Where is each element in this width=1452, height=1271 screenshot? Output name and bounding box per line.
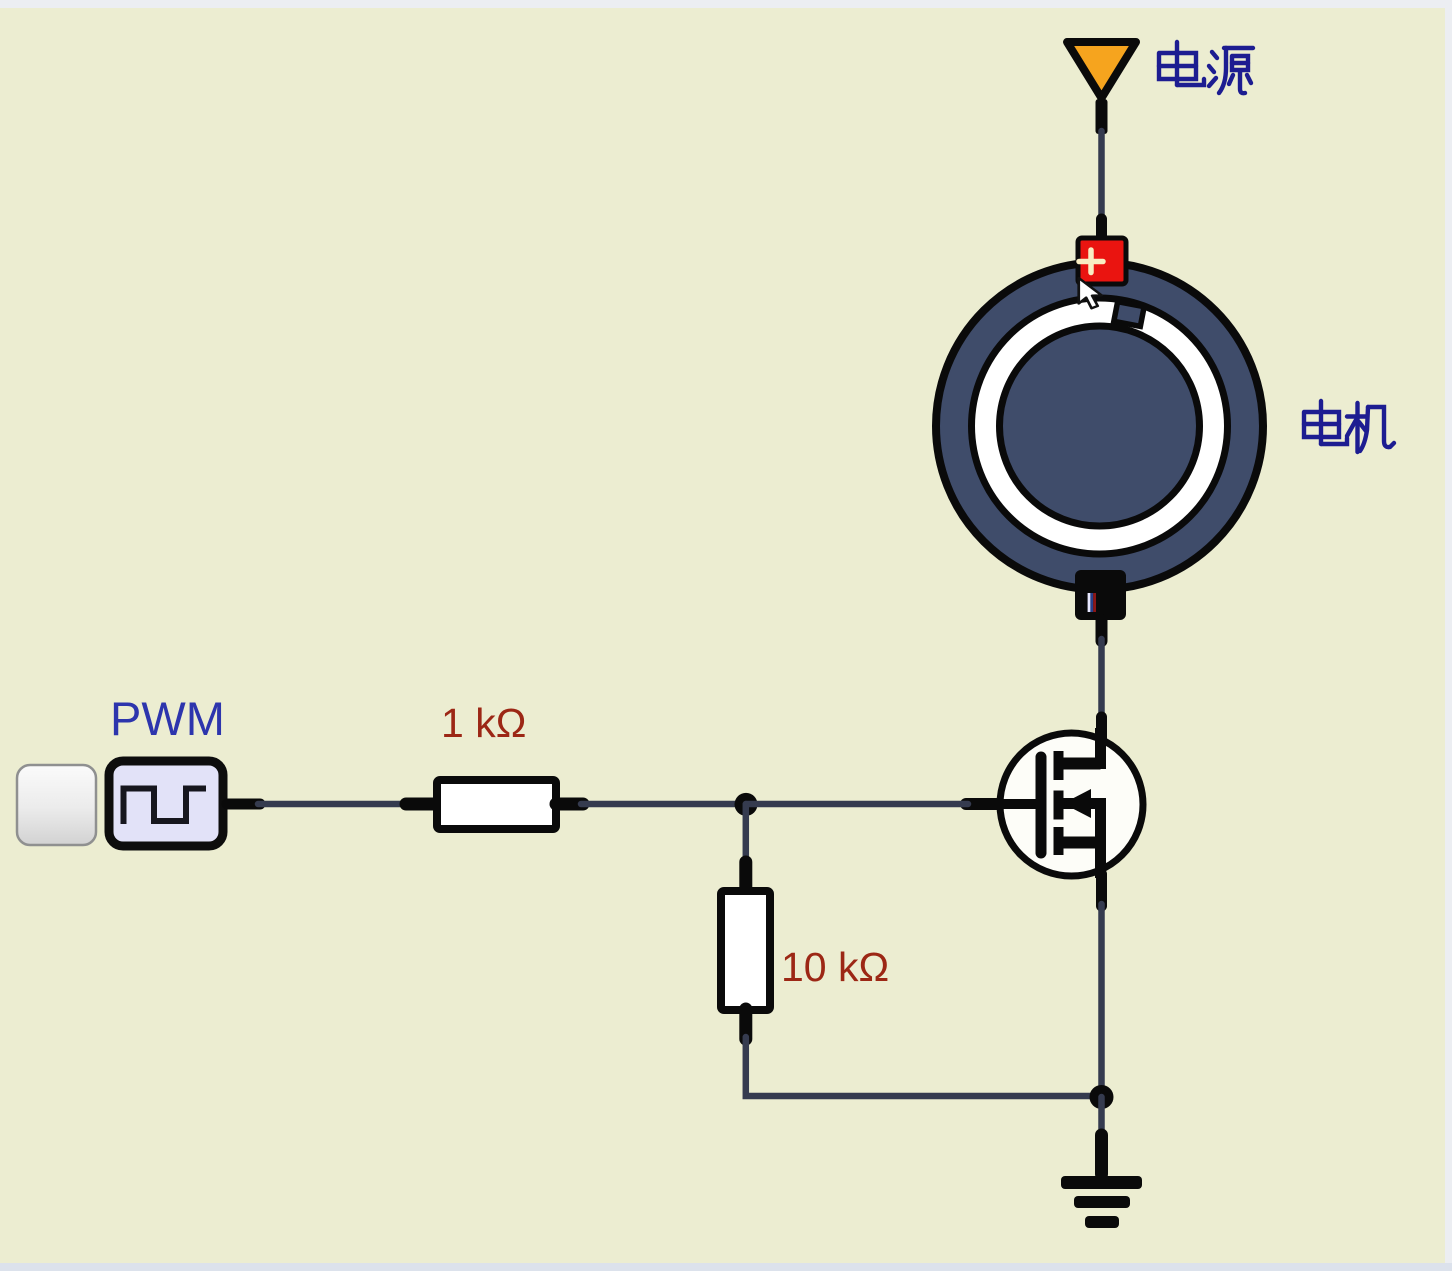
电 [1304, 401, 1347, 444]
label 电源 (hand-drawn CJK) [1159, 42, 1253, 93]
gate pin stub [966, 798, 999, 810]
wire R1 to gate node [581, 801, 746, 808]
wire motor to MOSFET drain [1096, 620, 1108, 738]
源 [1209, 48, 1253, 93]
node source junction [1090, 1085, 1114, 1109]
gate bar [1036, 757, 1047, 853]
resistor R2 10 kOhm [721, 862, 770, 1039]
wire gate node to R2 [743, 804, 750, 866]
wire power to motor + [1098, 131, 1105, 240]
svg-text:10 kΩ: 10 kΩ [781, 944, 889, 990]
label 电机 (hand-drawn CJK) [1304, 401, 1394, 452]
node gate junction [735, 793, 758, 816]
svg-text:1 kΩ: 1 kΩ [441, 700, 526, 746]
PWM toggle button [17, 765, 96, 845]
PWM source U1 [109, 761, 223, 846]
source lead [1059, 837, 1101, 849]
resistor R1 1 kOhm [406, 780, 583, 829]
ground [1061, 1135, 1142, 1228]
电 [1159, 42, 1204, 85]
channel segments [1054, 751, 1064, 780]
drain lead [1059, 758, 1101, 770]
机 [1347, 403, 1394, 452]
motor terminal - (black) [1075, 570, 1126, 620]
motor terminal + (red) [1078, 238, 1126, 284]
transistor Q1 N-MOSFET [966, 728, 1143, 878]
wire PWM to R1 [227, 799, 408, 810]
mouse cursor [1079, 278, 1102, 308]
gate lead inside [998, 799, 1038, 809]
svg-text:PWM: PWM [110, 692, 225, 745]
motor M1 电机 [936, 263, 1263, 590]
wire R2 to source node [746, 1037, 1102, 1096]
body arrow [1063, 798, 1101, 809]
wire source node to ground [1098, 1097, 1105, 1136]
wire gate node to MOSFET gate [746, 801, 968, 808]
rotor notch [1114, 302, 1144, 327]
bottom scrollbar strip [0, 1263, 1452, 1271]
power symbol 电源 (orange triangle) [1067, 42, 1136, 134]
wire MOSFET source to source node [1096, 874, 1107, 1096]
